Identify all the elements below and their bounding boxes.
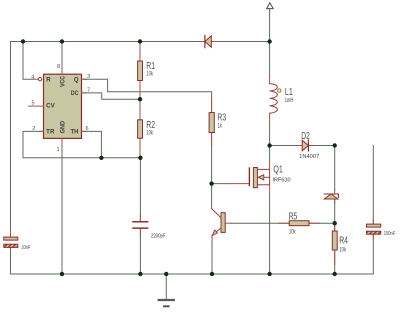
wire L1 top and bottom: [269, 42, 271, 146]
svg-text:2200pF: 2200pF: [151, 233, 166, 239]
svg-text:8: 8: [57, 64, 60, 70]
wire DC pin7 to R1R2 node: [82, 93, 141, 99]
node top rail VCC stem: [60, 39, 64, 43]
node gate junction: [209, 181, 213, 185]
wire R5 to sense node: [309, 222, 335, 224]
svg-text:VCC: VCC: [61, 75, 67, 86]
svg-text:R3: R3: [217, 113, 226, 124]
wire Q1 source down: [269, 193, 271, 274]
svg-text:1: 1: [56, 147, 59, 153]
node D2 cathode: [333, 143, 337, 147]
inductor L1: [270, 84, 294, 114]
svg-text:6: 6: [86, 126, 89, 132]
wire VCC pin8 stem: [61, 42, 63, 75]
node rail C2: [138, 272, 142, 276]
svg-text:100nF: 100nF: [384, 231, 396, 237]
svg-text:4: 4: [31, 74, 34, 80]
svg-text:DC: DC: [71, 91, 79, 97]
node DC to R1R2: [138, 97, 142, 101]
transistor Q1 MOSFET: [249, 164, 290, 187]
wire D2 cathode node vertical with zener and R4: [334, 146, 336, 275]
node top rail power/L1: [267, 39, 271, 43]
wire GND pin1 stem: [61, 138, 63, 274]
node top rail R1: [138, 39, 142, 43]
svg-text:R4: R4: [339, 236, 348, 247]
wire Q2 base to R5: [231, 222, 289, 224]
svg-text:L1: L1: [285, 87, 293, 98]
resistor R5: [279, 211, 320, 235]
wire C2 2200pF vertical: [139, 158, 141, 274]
wire Q pin3 to R3: [82, 79, 212, 112]
wire right vertical through C3: [372, 146, 374, 275]
wire TH pin6: [82, 131, 102, 157]
capacitor C2 2200pF: [133, 214, 166, 239]
svg-text:1N4007: 1N4007: [299, 154, 319, 160]
svg-text:10k: 10k: [146, 131, 153, 137]
wire L1 to D2 anode: [270, 145, 302, 147]
wire top VCC rail: [11, 41, 270, 43]
node rail emitter: [210, 272, 214, 276]
resistor R1: [138, 45, 156, 96]
node top rail R-pin junction: [21, 39, 25, 43]
power symbol VCC arrow: [267, 3, 274, 9]
node TH join: [99, 156, 103, 160]
svg-text:R5: R5: [289, 211, 298, 222]
node rail GND pin: [60, 272, 64, 276]
node L1 D2 drain: [267, 143, 271, 147]
capacitor C3 100nF: [367, 219, 396, 239]
wire TR pin2 to bottom net: [23, 131, 140, 157]
node rail R4: [333, 272, 337, 276]
svg-text:Q: Q: [74, 78, 79, 84]
node R2 C2 join: [138, 156, 142, 160]
svg-text:R1: R1: [146, 61, 155, 72]
wire bottom ground rail: [11, 273, 374, 275]
wire Q1 drain up: [269, 146, 271, 162]
resistor R2: [138, 105, 156, 154]
diode D1: [199, 35, 217, 47]
svg-text:5: 5: [32, 101, 35, 107]
wire left vertical to C1: [10, 42, 12, 275]
node rail source: [267, 272, 271, 276]
svg-text:10k: 10k: [339, 248, 346, 254]
capacitor C1 10nF: [4, 232, 31, 253]
svg-text:D2: D2: [301, 131, 310, 142]
wire ground stem: [165, 274, 167, 300]
svg-text:10k: 10k: [146, 71, 153, 77]
node sense R5 R4: [333, 221, 337, 225]
transistor Q2 NPN: [212, 209, 231, 236]
svg-text:10k: 10k: [289, 230, 296, 236]
svg-text:R: R: [46, 78, 51, 84]
svg-text:TR: TR: [46, 129, 55, 135]
svg-text:3: 3: [87, 74, 90, 80]
resistor R3: [209, 98, 226, 148]
svg-text:Q1: Q1: [273, 164, 283, 175]
svg-text:TH: TH: [71, 129, 79, 135]
wire power stem: [269, 9, 271, 42]
wire Q2 emitter to rail: [211, 243, 213, 274]
svg-text:2: 2: [32, 126, 35, 132]
diode D2: [297, 131, 319, 160]
svg-text:10nF: 10nF: [21, 245, 30, 251]
wire D2 cathode to node: [308, 145, 335, 147]
wire reset pin4 to rail: [23, 42, 34, 80]
wire R1-R2 chain: [139, 42, 141, 158]
resistor R4: [332, 223, 348, 264]
zener diode: [324, 190, 338, 204]
svg-text:GND: GND: [61, 120, 67, 133]
wire gate node to Q2 collector: [211, 184, 213, 209]
svg-text:R2: R2: [146, 120, 155, 131]
svg-text:IRF630: IRF630: [273, 177, 291, 183]
node rail ground stem: [164, 272, 168, 276]
svg-text:1k: 1k: [218, 123, 223, 129]
svg-text:7: 7: [87, 88, 90, 94]
svg-text:CV: CV: [46, 103, 55, 109]
svg-text:1mH: 1mH: [285, 98, 293, 104]
ground: [159, 299, 174, 301]
wire gate node to Q1 gate: [212, 183, 230, 185]
op-amp/timer IC U1 555: [29, 69, 87, 144]
wire R3 bottom to gate node: [211, 133, 213, 184]
